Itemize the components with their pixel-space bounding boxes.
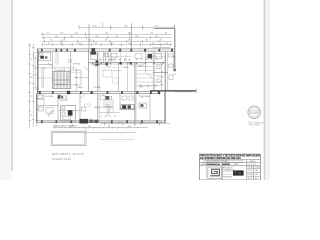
bottom dimension line 3 with diagonal ticks [53,127,147,129]
left dim ticks inner [32,47,34,127]
left dim ticks [28,45,31,129]
staircase treads [53,72,70,88]
dim ticks right wing [138,85,160,87]
right wing dim string ticks [161,64,163,90]
lower door arcs [57,94,61,98]
east wall lower inner [163,91,165,123]
left dimension column outer [29,43,31,129]
svg-text:210: 210 [160,84,163,86]
svg-text:115: 115 [140,86,143,88]
svg-text:260: 260 [128,33,131,35]
right wing inner wall x=165.2 [164,52,166,123]
svg-text:140: 140 [78,43,81,45]
south wall column blobs [41,120,158,123]
right wing interior marks [156,75,163,77]
architect spiral logo [210,169,219,176]
svg-text:302: 302 [60,33,63,35]
svg-text:120: 120 [56,126,59,128]
svg-text:CARRASCAL · MADRID: CARRASCAL · MADRID [207,163,231,166]
south wall window center line [40,121,162,123]
right wing small fixtures [157,66,161,69]
svg-text:95: 95 [108,126,110,128]
svg-text:10.45: 10.45 [92,26,97,28]
svg-text:PLANTA ALTA: PLANTA ALTA [52,157,71,161]
svg-text:260: 260 [70,126,73,128]
svg-text:90: 90 [50,40,52,42]
divider 2 [199,162,260,164]
bath cluster fixtures [96,60,99,62]
right column divider [246,160,248,180]
closet shelf tick [38,77,52,79]
page background [0,0,270,180]
svg-text:8.15: 8.15 [155,26,159,28]
dim marks top right short rows [153,44,171,46]
left page edge line [11,0,13,171]
stair center rail [53,79,71,81]
bottom dimension line 1 [100,123,170,125]
west wall lower window marks [36,98,38,121]
right wing inner wall x=167.8 [167,52,169,91]
terrace outer rectangle [51,131,86,145]
svg-text:110: 110 [62,40,65,42]
diagonal ticks on dim 3 [54,127,148,129]
bottom dimension line 2 [53,125,78,127]
right wing partition wall y=72.6 [153,72,168,74]
hallway door marks [92,62,164,64]
grid stub x=102.5 [102,22,104,27]
right wing dim string vertical [161,63,163,90]
dimension line row 3 [42,37,173,39]
svg-text:EXP. 1284/71 · 12.IV.72: EXP. 1284/71 · 12.IV.72 [52,152,84,156]
divider under titles [199,159,260,161]
door arc hall [48,62,53,67]
svg-text:JUN.: JUN. [255,174,259,176]
partition x=153.5 double [152,51,154,91]
kitchen counters [43,94,45,105]
right wing east wall [174,28,176,70]
room label smudges [30,26,168,129]
svg-text:COL. N. 8: COL. N. 8 [248,164,256,166]
bedroom 2 bed [135,54,142,59]
interior vertical dim x=76 [75,68,77,91]
svg-text:ESTAR: ESTAR [94,86,101,89]
svg-text:75: 75 [48,43,50,45]
interior dim ticks [75,70,77,91]
bottom long line [53,132,136,134]
stair landing room [69,70,81,85]
handwritten notes bottom-left [52,152,84,161]
partition x=118.5 [118,62,120,91]
svg-text:1:50: 1:50 [248,170,252,172]
right wing east wall inner [172,51,174,70]
sub box row [204,160,243,162]
hall partition below bath [39,64,53,66]
right wing small bath fixtures [169,54,173,57]
partition x=52.5 upper [52,51,54,71]
right wing closet shelf [146,56,165,58]
svg-text:92: 92 [160,122,162,124]
hallway wall y=64 light [89,63,146,65]
svg-text:VESTIB.: VESTIB. [73,64,81,66]
svg-text:210: 210 [128,40,131,42]
bed faint room center [103,70,112,77]
svg-text:160: 160 [88,40,91,42]
fireplace right room [139,103,147,108]
svg-text:95: 95 [47,33,49,35]
long east boundary dark line [150,90,196,92]
left dimension column inner [32,44,34,127]
svg-text:120: 120 [55,36,58,38]
partition x=98 double [97,51,99,91]
bedroom 1 bed [91,55,98,60]
svg-text:29: 29 [30,96,32,98]
svg-text:VEST.: VEST. [156,64,162,66]
east wall window marks [173,56,175,70]
hall door jambs right [120,62,122,65]
west porch box [34,53,38,59]
svg-text:210: 210 [75,33,78,35]
top dimension line [80,26,175,28]
svg-text:9.80: 9.80 [124,26,128,28]
svg-text:210: 210 [128,43,131,45]
top wall of upper wing [154,28,175,30]
wardrobe shelf line [109,55,132,57]
svg-text:IV.72: IV.72 [248,178,252,180]
stamp lettering ring [250,108,258,116]
sofa small rects [82,108,86,112]
hallway wall y=62.4 [89,61,166,63]
faint patio line [100,139,135,141]
svg-text:PASO: PASO [78,86,84,89]
terrace inner rectangle [53,133,85,145]
partition x=103.5 double bath [103,51,105,62]
svg-text:85: 85 [72,124,74,126]
svg-text:180: 180 [135,36,138,38]
upper room texture dashes [100,59,131,61]
svg-text:95: 95 [105,40,107,42]
right page edge line [263,0,265,180]
svg-text:04: 04 [255,170,257,172]
svg-text:Col. 1.234: Col. 1.234 [249,125,259,127]
stair arrow line [55,83,68,85]
west wall window marks [37,56,39,92]
west wall lower [36,94,38,123]
west wall upper [37,49,39,94]
svg-text:BAÑO: BAÑO [109,58,115,61]
kitchen door arc [48,111,54,117]
stamp inner circle [249,107,259,117]
svg-text:OFICIO: OFICIO [61,98,68,100]
svg-text:310: 310 [88,126,91,128]
lower partitions [57,94,59,121]
closet double line left [41,68,43,88]
bedroom 1 dark headboard [90,52,96,55]
stamp band lines [249,110,259,112]
architect logo box [208,167,222,178]
svg-text:38: 38 [30,77,32,79]
svg-text:31: 31 [30,115,32,117]
svg-text:150: 150 [60,43,63,45]
title block outer frame [199,154,260,180]
svg-text:185: 185 [70,36,73,38]
svg-text:305: 305 [110,43,113,45]
ticks on dim row 5 [43,43,173,46]
svg-text:TERRAZA: TERRAZA [140,95,150,98]
interior dim line mid-left [74,77,88,79]
grid vertical x=89 [88,24,90,49]
ticks on dim row 2 [42,33,172,36]
faint closet verticals room 2 [111,52,113,62]
partition x=70.5 upper [70,51,72,71]
middle cell dark block [233,170,244,175]
staircase rails [53,72,71,89]
right cells grid [253,166,255,180]
terrace connector vertical [85,128,87,132]
upper-left bathroom partition [39,52,51,60]
dark fixture near bed2 [148,54,153,59]
svg-text:120: 120 [115,36,118,38]
svg-text:185: 185 [140,122,143,124]
bathroom inner shelf [39,55,45,57]
middle spine wall [36,90,160,92]
dimension line row 5 [42,44,173,46]
right side small dim marks [138,45,170,88]
west sill ticks [33,74,38,76]
corridor dim line [33,67,74,69]
lower horizontals [37,104,58,106]
closet right wing [156,53,162,58]
right wing dim ladder lines [137,67,153,87]
north facade window center lines [40,49,173,51]
east wall end blob [174,69,176,71]
kitchen dark fixtures [61,106,76,122]
ticks on dim row 4 [45,40,173,43]
interior door arcs [92,62,96,66]
middle cell row lines [222,168,232,170]
svg-text:C.O.A.M: C.O.A.M [250,111,258,114]
small marks above landing [69,60,72,63]
divider 3 [199,165,260,167]
stamp outer circle [248,106,261,119]
dark terrace step cluster [79,119,88,124]
pantry dark fixtures [58,95,61,98]
partition x=108.5 [108,51,110,62]
top dimension ticks [79,25,177,29]
svg-text:88: 88 [165,33,167,35]
bathroom fixtures [40,56,43,59]
small wall stub [113,70,121,72]
svg-text:88: 88 [95,43,97,45]
upper room faint texture lines [101,66,117,68]
partition x=145.5 [145,51,147,72]
lounge small rects [101,96,106,100]
west wall dim stub below [36,123,38,127]
svg-text:A.3: A.3 [255,177,258,180]
svg-text:318: 318 [150,33,153,35]
bath dark cluster [121,104,134,109]
svg-text:ESCALERA: ESCALERA [55,69,66,72]
main top wall (north facade) [37,48,175,50]
svg-text:240: 240 [155,36,158,38]
north facade column blobs [41,48,173,52]
dimension line row 4 [42,40,173,42]
closet double line upper-left [55,51,57,64]
lounge double partition [106,104,108,116]
svg-text:180: 180 [145,40,148,42]
east boundary light second line [175,91,192,93]
svg-text:Fdo. Arquitecto: Fdo. Arquitecto [248,121,264,124]
svg-text:95: 95 [160,40,162,42]
svg-text:COCINA: COCINA [45,95,54,98]
grid vertical x=131.5 [131,23,133,50]
partition x=88.5 full [88,49,90,92]
svg-text:VISADO: VISADO [249,160,256,163]
svg-text:BAÑO: BAÑO [138,64,144,67]
svg-text:SALON COMEDOR: SALON COMEDOR [94,106,113,109]
partition x=127.5 [127,62,129,91]
svg-text:415: 415 [105,33,108,35]
bath fixtures top [104,53,108,56]
hall door jamb marks [106,63,108,66]
right wing tick at 165 [164,71,166,75]
svg-text:DORMITORIO: DORMITORIO [94,64,108,66]
svg-text:21: 21 [30,59,32,61]
left scan margin strip [0,0,12,180]
landing inner line [69,71,81,73]
svg-text:P. BAÑO: P. BAÑO [121,66,129,69]
east boundary end tick [195,89,197,93]
narrow left cell line [206,166,208,180]
dimension line row 2 [42,33,173,35]
svg-text:140: 140 [128,126,131,128]
right scan margin strip [265,0,270,180]
south wall [37,120,166,122]
ticks on dim row 3 [43,36,172,39]
west balcony edge line [34,55,36,90]
logo cell divider [221,166,223,180]
svg-text:240: 240 [95,36,98,38]
table lounge [104,100,113,107]
svg-text:420: 420 [118,122,121,124]
spine wall column blobs [39,91,160,94]
